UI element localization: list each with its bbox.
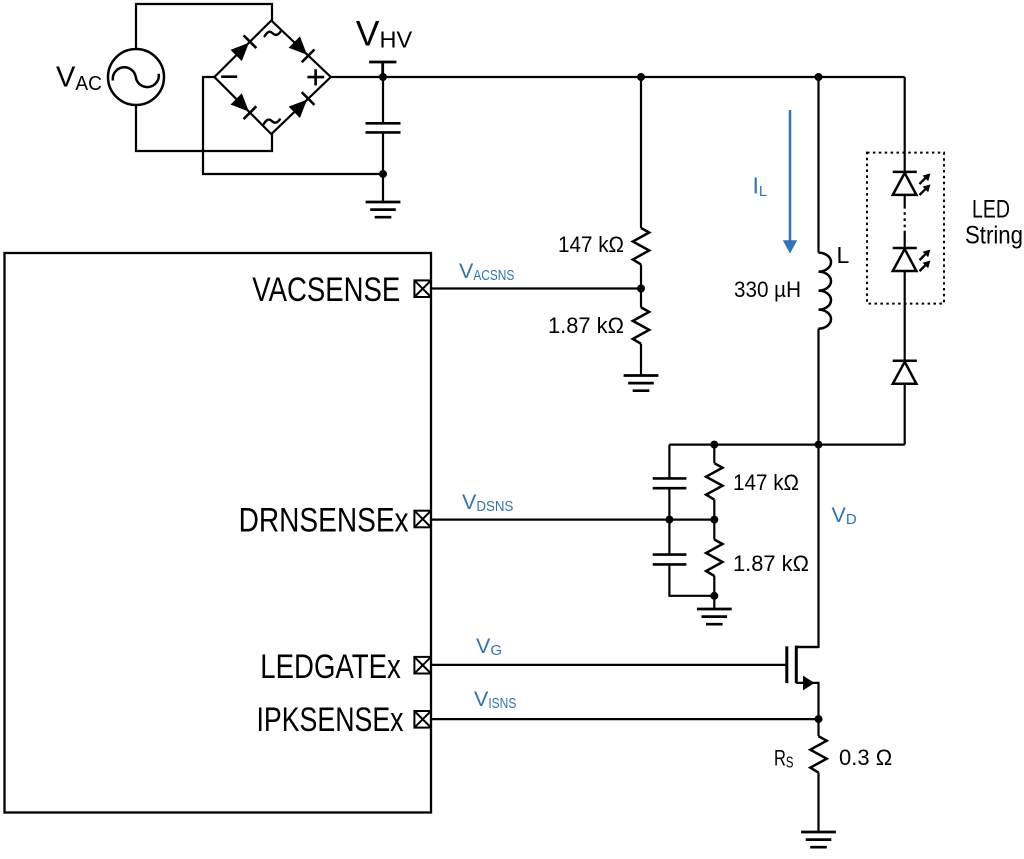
wire source node to resistor Rs [817, 719, 819, 736]
svg-text:147 kΩ: 147 kΩ [733, 470, 799, 495]
bridge diode bottom-right [288, 92, 315, 119]
svg-text:1.87 kΩ: 1.87 kΩ [548, 313, 624, 338]
wire rail to resistor 147k divider1 [640, 77, 642, 228]
wire resistor 1.87k to ground [640, 344, 642, 376]
node dot rail inductor [815, 73, 823, 81]
LED D2 emission arrows [920, 250, 931, 272]
wire VHV top rail [331, 76, 905, 78]
capacitor C2 divider2 [653, 555, 687, 565]
bridge diode top-right [288, 36, 315, 63]
resistor 147k divider1 [633, 228, 649, 264]
wire bulk capacitor to ground node [382, 132, 384, 202]
pin LEDGATEx [414, 657, 431, 674]
resistor Rs [810, 736, 826, 772]
wire drain rail horizontal [669, 444, 904, 446]
wire IPKSENSEx pin to source node [431, 718, 819, 720]
inductor L [819, 253, 831, 329]
svg-text:VD: VD [832, 503, 857, 528]
svg-text:LEDGATEx: LEDGATEx [260, 648, 401, 686]
pin IPKSENSEx [414, 711, 431, 728]
MOSFET Q1 channel bar [795, 646, 798, 684]
resistor 1.87k divider2 [706, 540, 722, 576]
wire VACSENSE pin to divider1 node [431, 287, 641, 289]
bridge minus mark [221, 75, 237, 78]
svg-text:VISNS: VISNS [474, 687, 516, 712]
node dot drain rail mosfet branch [815, 441, 823, 449]
svg-text:LED: LED [972, 196, 1010, 224]
bridge diode top-left [230, 35, 257, 62]
wire resistor Rs to ground [817, 772, 819, 832]
wire capacitor branch middle [668, 488, 670, 554]
LED D2 [893, 248, 917, 271]
node VHV terminal [369, 62, 396, 77]
svg-text:L: L [837, 242, 850, 268]
current arrow IL [783, 110, 797, 254]
bridge diode bottom-left [230, 93, 257, 120]
bridge AC mark top [265, 32, 281, 37]
svg-text:330 µH: 330 µH [734, 277, 801, 302]
resistor 147k divider2 [706, 463, 722, 499]
bridge AC mark bottom [264, 119, 280, 124]
AC source VAC [108, 49, 164, 105]
wire rail to LED string [904, 77, 906, 172]
wire drain rail to resistor 147k divider2 [713, 445, 715, 464]
wire VHV node to bulk capacitor [382, 77, 384, 123]
node dot source [815, 715, 823, 723]
capacitor bulk VHV [366, 123, 401, 132]
diode D3 [893, 361, 917, 384]
wire dotted section LED string [904, 206, 906, 233]
svg-text:VDSNS: VDSNS [462, 490, 513, 515]
capacitor C1 divider2 [653, 478, 687, 488]
node dot rail divider1 [637, 73, 645, 81]
svg-text:DRNSENSEx: DRNSENSEx [239, 502, 409, 540]
node dot bulk cap bottom [379, 170, 387, 178]
bridge rectifier diamond [214, 21, 330, 135]
pin DRNSENSEx [414, 511, 431, 528]
wire VACSNS node segment [640, 264, 642, 307]
svg-text:VACSNS: VACSNS [459, 259, 514, 284]
IC box [5, 253, 432, 813]
svg-text:IL: IL [753, 173, 768, 201]
ground G1 [366, 202, 401, 217]
wire VAC top to bridge top [136, 4, 272, 49]
svg-text:RS: RS [774, 745, 794, 771]
wire divider2 bottom segment [713, 576, 715, 609]
node dot divider2 cap mid [665, 516, 673, 524]
ground G3 [697, 609, 732, 624]
wire inductor to drain rail [817, 329, 819, 445]
wire capacitor branch bottom [669, 564, 714, 595]
node dot divider2 bottom [710, 592, 718, 600]
svg-text:147 kΩ: 147 kΩ [558, 232, 624, 257]
svg-text:1.87 kΩ: 1.87 kΩ [733, 551, 809, 576]
wire source of MOSFET [796, 683, 818, 719]
LED D1 [893, 172, 917, 195]
wire VAC bottom to bridge bottom [136, 105, 272, 151]
ground G4 [801, 832, 836, 847]
wire bridge minus output to ground node [203, 77, 383, 174]
svg-text:VAC: VAC [56, 61, 102, 95]
LED string dashed box [867, 153, 944, 304]
wire diode D1 to drain rail [904, 384, 906, 445]
svg-text:VG: VG [476, 634, 502, 659]
ground G2 [624, 376, 659, 391]
MOSFET Q1 drain stub [796, 646, 818, 648]
wire dotted section to LED2 [904, 233, 906, 248]
node dot divider2 res mid [710, 516, 718, 524]
node dot VACSNS [637, 285, 645, 293]
wire LED1 to dotted section [904, 195, 906, 206]
pin VACSENSE [414, 280, 431, 297]
bridge plus mark [307, 69, 324, 85]
wire drain of MOSFET [796, 445, 818, 647]
wire capacitor branch top [668, 445, 670, 479]
svg-text:VACSENSE: VACSENSE [252, 271, 400, 309]
svg-text:0.3 Ω: 0.3 Ω [839, 745, 892, 770]
node dot VHV [379, 73, 387, 81]
LED D1 emission arrows [920, 173, 931, 195]
wire LEDGATEx pin to gate [431, 664, 787, 666]
resistor 1.87k divider1 [633, 307, 649, 343]
svg-text:IPKSENSEx: IPKSENSEx [257, 701, 404, 739]
svg-text:String: String [965, 222, 1023, 250]
wire rail to inductor [817, 77, 819, 253]
node dot drain rail resistor branch [710, 441, 718, 449]
wire LED2 to diode D1 [904, 270, 906, 361]
MOSFET Q1 source arrow [803, 676, 815, 691]
MOSFET Q1 gate bar [785, 646, 788, 683]
svg-text:VHV: VHV [356, 13, 413, 53]
wire divider2 mid segment [713, 499, 715, 539]
wire DRNSENSEx pin to divider2 node [431, 518, 714, 520]
